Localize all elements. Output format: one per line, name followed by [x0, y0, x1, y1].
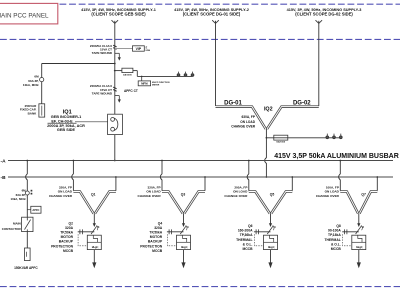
svg-text:BACKUP: BACKUP	[59, 240, 74, 244]
wire to VIP meter	[115, 48, 133, 50]
MCCB switch contact (Q2)	[91, 223, 100, 234]
incoming supply 1 arrow	[112, 20, 119, 23]
label 320A, FP changeover	[49, 185, 73, 198]
wire Q5 to MCCB	[270, 213, 272, 223]
svg-text:(CLIENT SCOPE DG-02 SIDE): (CLIENT SCOPE DG-02 SIDE)	[295, 11, 353, 16]
svg-text:VIP: VIP	[136, 47, 142, 51]
svg-text:MOTOR: MOTOR	[150, 235, 163, 239]
svg-text:320A: 320A	[154, 226, 163, 230]
changeover Q7 (V symbol)	[340, 192, 377, 214]
svg-text:TP,36kA: TP,36kA	[240, 233, 253, 237]
incoming supply 3 arrow (DG-02)	[316, 20, 323, 23]
svg-text:100A, FP: 100A, FP	[326, 185, 339, 189]
interlock dashed link Q6	[254, 234, 263, 246]
wire Q4 to load arrow	[183, 250, 185, 263]
label incoming supply 1	[81, 8, 157, 16]
contactor (main)	[22, 217, 33, 231]
load arrow Q8	[357, 262, 361, 268]
label MCB 6M	[23, 74, 40, 87]
svg-text:MAIN PCC PANEL: MAIN PCC PANEL	[0, 12, 49, 19]
label Q4 block	[140, 221, 163, 253]
label Q2 block	[51, 221, 74, 253]
panel boundary dashed line (client/panel split)	[0, 38, 400, 40]
label incoming supply 3	[287, 8, 362, 16]
panel boundary dashed line (top)	[60, 3, 400, 5]
label 25kVAR fixed cap bank	[20, 104, 37, 116]
label CT1	[90, 44, 113, 55]
feeder Q7 left leg from bus A (hump over bus B)	[339, 161, 341, 191]
interlock dashed link Q2	[78, 234, 87, 246]
svg-text:DA/1000: DA/1000	[123, 73, 132, 76]
svg-text:CONTACTOR: CONTACTOR	[2, 227, 22, 231]
label MCB (APFC feeder)	[10, 188, 26, 201]
wire ACB to bus A	[114, 135, 116, 162]
label Q8 block	[324, 224, 341, 251]
svg-text:& O.L.: & O.L.	[331, 242, 341, 246]
svg-text:320A, FP: 320A, FP	[148, 185, 161, 189]
indicating lamps R Y B	[177, 72, 194, 77]
svg-text:10kA, MCB: 10kA, MCB	[10, 197, 25, 201]
CT1 secondary arrow	[115, 53, 121, 60]
svg-text:ON LOAD: ON LOAD	[240, 120, 255, 124]
MCCB Q8 box	[352, 235, 366, 249]
svg-text:160-200A: 160-200A	[238, 229, 253, 233]
indicating lamps R Y B (DG)	[326, 134, 342, 139]
load arrow Q6	[268, 262, 272, 268]
svg-text:CHANGE OVER: CHANGE OVER	[316, 194, 340, 198]
changeover Q1 (V symbol)	[73, 192, 116, 214]
svg-text:-A: -A	[1, 159, 7, 165]
bus A	[8, 160, 393, 162]
label 200A, FP changeover	[224, 185, 248, 198]
feeder Q5 left leg from bus A (hump over bus B)	[247, 161, 249, 191]
MCCB switch contact (Q6)	[267, 223, 276, 234]
capacitor 25kVAR fixed cap bank	[39, 104, 45, 117]
incoming supply 2 arrow (DG-01)	[212, 20, 219, 23]
svg-text:CHANGE OVER: CHANGE OVER	[49, 194, 73, 198]
svg-text:MAIN: MAIN	[13, 222, 21, 226]
svg-text:PROTECTION: PROTECTION	[140, 244, 163, 248]
svg-text:GEB SIDE: GEB SIDE	[57, 128, 76, 132]
label CT2	[90, 84, 113, 95]
interlock dashed link Q4	[167, 234, 176, 246]
svg-text:Q2: Q2	[69, 221, 74, 225]
svg-text:THERMAL: THERMAL	[324, 238, 340, 242]
svg-text:Q1: Q1	[91, 193, 96, 197]
label VIP meter	[146, 47, 151, 53]
svg-text:630A, FP: 630A, FP	[242, 115, 256, 119]
svg-text:415V 3,5P 50kA ALUMINIUM BUSBA: 415V 3,5P 50kA ALUMINIUM BUSBAR	[274, 153, 399, 160]
svg-text:CHANGE OVER: CHANGE OVER	[224, 194, 248, 198]
wire APFC feeder tap from bus A (hump over bus B)	[26, 161, 28, 218]
load arrow Q2	[92, 262, 96, 268]
label MFM	[152, 82, 170, 87]
plug-in contact Q4	[167, 229, 184, 234]
wire IQ2 to bus B (hump over bus A)	[265, 129, 267, 177]
leader line IQ1 label to ACB	[75, 121, 108, 123]
MCB 6M 63A (APFC feeder)	[25, 191, 29, 195]
svg-text:I&gt;: I&gt;	[181, 245, 188, 249]
wire DG-02 drop	[318, 21, 320, 106]
svg-text:KWH: KWH	[146, 50, 151, 52]
svg-text:GEB INCOMER-1: GEB INCOMER-1	[51, 115, 82, 119]
MCCB switch contact (Q4)	[180, 223, 189, 234]
svg-text:MFM: MFM	[141, 82, 148, 86]
svg-text:320A, FP: 320A, FP	[59, 185, 72, 189]
MCCB Q4 box	[177, 235, 191, 249]
svg-text:Q7: Q7	[361, 193, 366, 197]
fuse DA/1000 (metering)	[114, 68, 137, 76]
interlock dashed link Q8	[343, 234, 352, 246]
svg-text:Q6: Q6	[248, 224, 253, 228]
panel boundary dashed line (bottom)	[0, 286, 400, 288]
svg-text:Q3: Q3	[181, 193, 186, 197]
svg-text:(CLIENT SCOPE GEB SIDE): (CLIENT SCOPE GEB SIDE)	[91, 11, 146, 16]
svg-text:I&gt;: I&gt;	[268, 245, 275, 249]
svg-text:TP,18kA: TP,18kA	[328, 233, 341, 237]
label main contactor	[2, 222, 22, 231]
svg-text:Q4: Q4	[158, 221, 163, 225]
svg-text:6M: 6M	[22, 188, 27, 192]
changeover Q3 (V symbol)	[162, 192, 205, 214]
CT 2000/5A (metering)	[113, 45, 116, 49]
svg-text:MCCB: MCCB	[331, 247, 342, 251]
meter MFM multi function meter	[138, 76, 150, 86]
svg-text:TP,50kA: TP,50kA	[60, 231, 73, 235]
svg-text:10kA, MCB: 10kA, MCB	[23, 83, 40, 87]
svg-text:APFC: APFC	[32, 208, 39, 212]
ACB IQ1 GEB incomer	[108, 114, 123, 134]
svg-text:IQ2: IQ2	[264, 106, 273, 112]
svg-text:CHANGE OVER: CHANGE OVER	[138, 194, 162, 198]
svg-text:I&gt;: I&gt;	[92, 245, 99, 249]
svg-text:METER: METER	[152, 85, 160, 87]
wire contactor to capacitor	[26, 232, 28, 248]
svg-text:APFC CT: APFC CT	[124, 89, 138, 93]
svg-text:BACKUP: BACKUP	[148, 240, 163, 244]
feeder Q1 right leg from bus B	[115, 176, 117, 191]
svg-text:MCCB: MCCB	[152, 249, 163, 253]
svg-text:EF. CH-03-E: EF. CH-03-E	[51, 119, 73, 123]
panel title box MAIN PCC PANEL	[0, 3, 58, 24]
feeder Q7 right leg from bus B	[376, 176, 378, 191]
svg-text:TAPE WOUND: TAPE WOUND	[92, 51, 113, 55]
label IQ1	[47, 110, 85, 133]
label Q6 block	[236, 224, 253, 251]
wire Q1 to MCCB	[93, 213, 95, 223]
plug-in contact Q2	[78, 229, 95, 234]
svg-text:MOTOR: MOTOR	[61, 235, 74, 239]
wire DG-01 drop	[215, 21, 217, 106]
changeover IQ2 (V symbol)	[216, 107, 319, 129]
svg-text:320A: 320A	[65, 226, 74, 230]
svg-text:6M: 6M	[34, 74, 39, 78]
svg-text:Q8: Q8	[336, 224, 341, 228]
plug-in contact Q8	[342, 229, 359, 234]
svg-text:TP,50kA: TP,50kA	[149, 231, 162, 235]
changeover Q5 (V symbol)	[249, 192, 292, 214]
wire Q7 to MCCB	[358, 213, 360, 223]
MCCB Q6 box	[264, 235, 278, 249]
svg-text:ON LOAD: ON LOAD	[325, 190, 340, 194]
svg-text:CHANGE OVER: CHANGE OVER	[231, 125, 255, 129]
svg-text:MCCB: MCCB	[242, 247, 253, 251]
wire fixed capacitor branch	[42, 63, 116, 104]
label 100A, FP changeover	[316, 185, 340, 198]
svg-text:I&gt;: I&gt;	[356, 245, 363, 249]
label 320A, FP changeover	[138, 185, 162, 198]
wire Q6 to load arrow	[270, 250, 272, 263]
svg-text:200A, FP: 200A, FP	[234, 185, 247, 189]
bus B	[8, 176, 393, 178]
MCCB Q2 box	[87, 235, 101, 249]
svg-text:TAPE WOUND: TAPE WOUND	[92, 91, 113, 95]
wire incomer-1 drop	[114, 21, 116, 114]
svg-text:90-100A: 90-100A	[328, 229, 341, 233]
svg-text:(CLIENT SCOPE DG-01 SIDE): (CLIENT SCOPE DG-01 SIDE)	[183, 11, 241, 16]
meter VIP	[133, 46, 145, 51]
wire Q3 to MCCB	[183, 213, 185, 223]
wire Q8 to load arrow	[358, 250, 360, 263]
svg-text:ON LOAD: ON LOAD	[233, 190, 248, 194]
CT 2000/5A (APFC)	[113, 87, 116, 91]
feeder Q3 left leg from bus A (hump over bus B)	[160, 161, 162, 191]
MCB 6M 63A (fixed cap bank)	[40, 78, 44, 82]
svg-text:MCCB: MCCB	[63, 249, 74, 253]
wire Q2 to load arrow	[93, 250, 95, 263]
capacitor 150kVAR APFC	[25, 248, 31, 261]
plug-in contact Q6	[254, 229, 271, 234]
svg-text:THERMAL: THERMAL	[236, 238, 252, 242]
svg-text:& O.L.: & O.L.	[243, 242, 253, 246]
wire lamp branch	[137, 71, 192, 77]
label 630A changeover	[231, 115, 256, 129]
feeder Q5 right leg from bus B	[291, 176, 293, 191]
svg-text:DA/1000: DA/1000	[276, 141, 285, 144]
svg-text:150KVAR APFC: 150KVAR APFC	[14, 266, 38, 270]
svg-text:ON LOAD: ON LOAD	[58, 190, 73, 194]
svg-text:Q5: Q5	[270, 193, 275, 197]
svg-text:ON LOAD: ON LOAD	[146, 190, 161, 194]
MCCB switch contact (Q8)	[356, 223, 365, 234]
feeder Q1 left leg from bus A (hump over bus B)	[72, 161, 74, 191]
svg-text:BANK: BANK	[28, 112, 37, 116]
svg-text:PROTECTION: PROTECTION	[51, 244, 74, 248]
APFC relay box	[27, 206, 41, 213]
fuse DA/1000 (DG metering)	[266, 135, 342, 143]
load arrow Q4	[181, 262, 185, 268]
CT2 secondary arrow	[115, 96, 121, 103]
feeder Q3 right leg from bus B	[204, 176, 206, 191]
label incoming supply 2	[174, 8, 249, 16]
svg-text:-B: -B	[1, 175, 7, 181]
